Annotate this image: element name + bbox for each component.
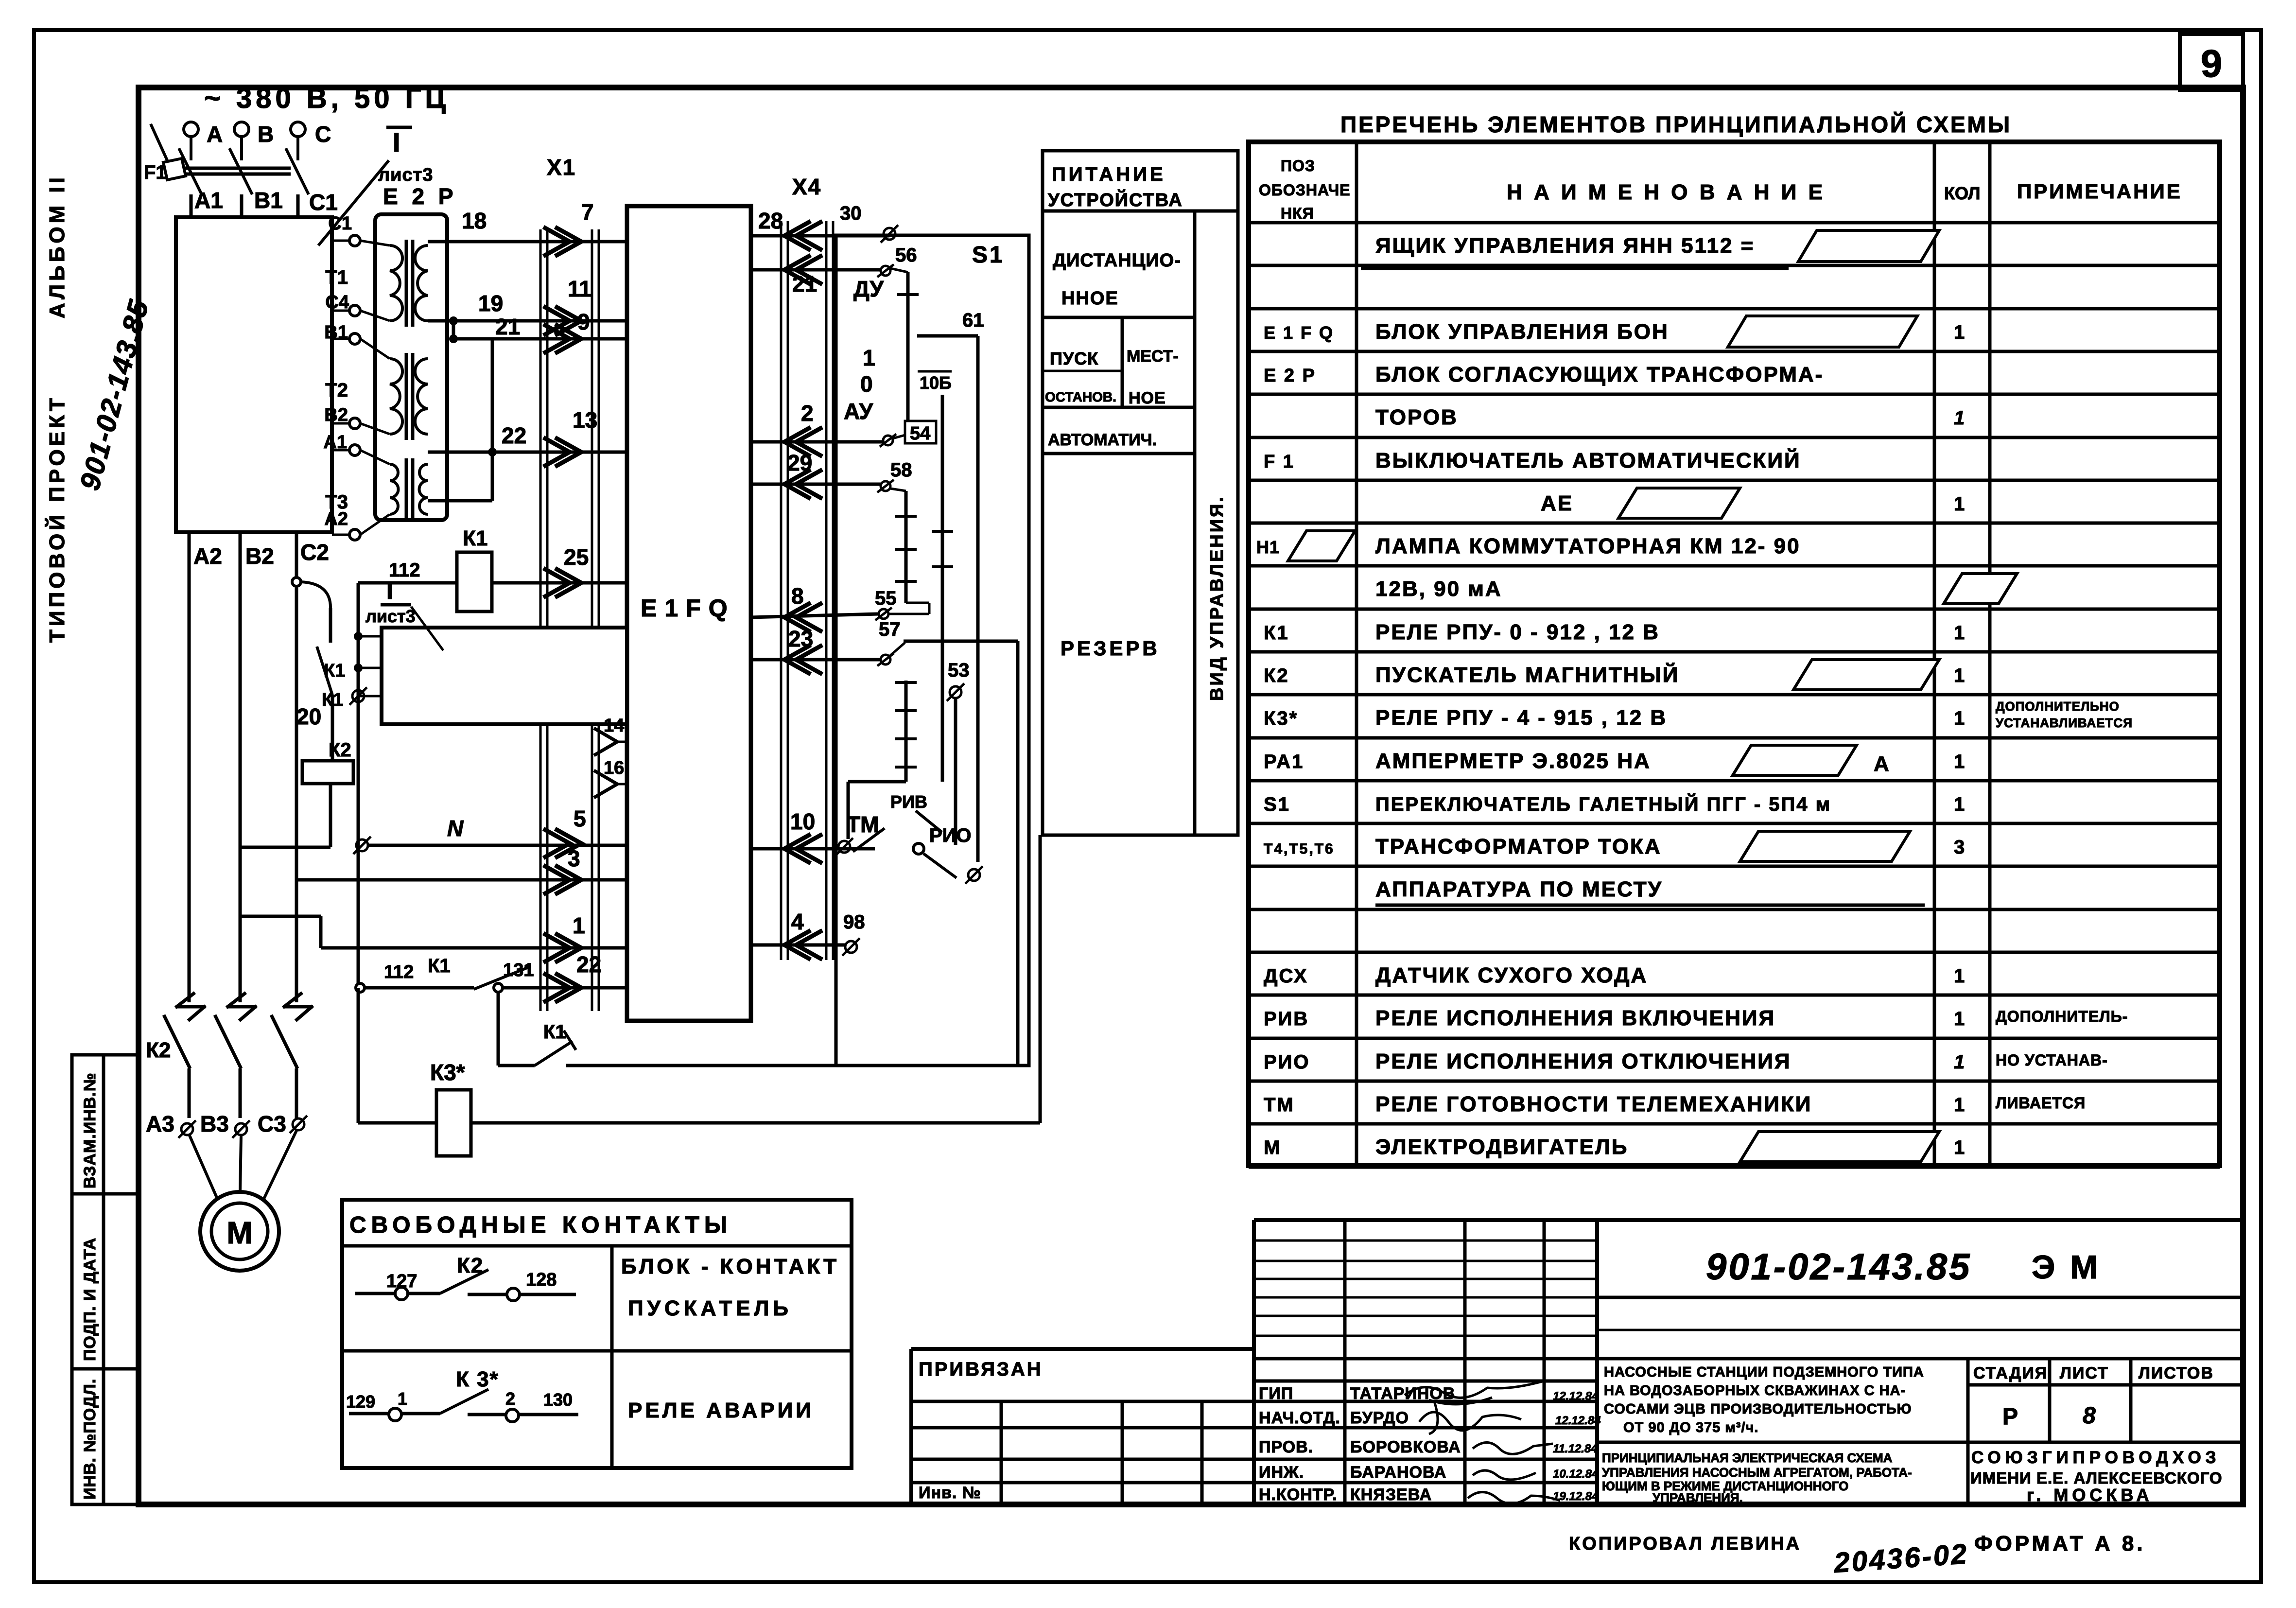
signature squiggle 5 [1468, 1492, 1560, 1504]
svg-text:1: 1 [1954, 1094, 1965, 1116]
K2 main contact pole [215, 993, 257, 1068]
element table row line 9 [1249, 608, 2220, 611]
placeholder row 15 [1740, 831, 1910, 861]
wire phase drop to box [190, 194, 193, 217]
privyazan divider [1121, 1401, 1124, 1504]
pitanie header line [1043, 210, 1238, 213]
X1 chevron 3 [543, 865, 581, 894]
transformer core line b [411, 458, 415, 520]
terminal В1 [349, 333, 360, 344]
title row line 3002 [911, 1458, 1597, 1461]
svg-text:РИВ: РИВ [1264, 1008, 1309, 1030]
connector X1 column line [591, 229, 593, 1011]
svg-text:29: 29 [787, 450, 812, 475]
wire K2 coil to phase B [240, 846, 330, 849]
svg-text:1: 1 [1954, 493, 1965, 515]
contact TM [853, 828, 885, 852]
phase wire A down [188, 532, 191, 1002]
svg-text:Т4,Т5,Т6: Т4,Т5,Т6 [1264, 841, 1335, 857]
matching transformer block E2P [375, 214, 447, 520]
svg-text:лист3: лист3 [365, 606, 416, 626]
sheet reference block (list3) [382, 628, 627, 724]
contact row1 circle right [507, 1288, 520, 1301]
F1 handle [163, 158, 186, 180]
X4 chevron 10 [784, 834, 822, 863]
svg-text:А: А [1874, 752, 1889, 776]
svg-text:ЛАМПА КОММУТАТОРНАЯ КМ 12-: ЛАМПА КОММУТАТОРНАЯ КМ 12- 90 [1375, 534, 1801, 558]
svg-text:~ 380 В, 50 ГЦ: ~ 380 В, 50 ГЦ [204, 83, 450, 114]
wire 21/56 [751, 268, 881, 272]
svg-text:12В, 90 мА: 12В, 90 мА [1375, 577, 1502, 601]
chain DU vertical [906, 272, 910, 440]
title small row line [1254, 1296, 1597, 1299]
chain 10B vertical [941, 395, 944, 782]
diagonal leader to sheet ref [318, 160, 389, 245]
svg-text:ФОРМАТ А 8.: ФОРМАТ А 8. [1974, 1532, 2146, 1556]
phase wire C down [295, 532, 298, 1002]
X4 chevron 23 [784, 645, 822, 674]
svg-text:16: 16 [604, 758, 624, 778]
placeholder row 9 qty [1944, 574, 2017, 604]
element table row line 2 [1249, 307, 2220, 311]
no-connect N end [353, 837, 371, 854]
wire 61 vertical [976, 336, 980, 862]
svg-text:АВТОМАТИЧ.: АВТОМАТИЧ. [1048, 431, 1157, 449]
junction stub b [354, 664, 363, 672]
svg-text:БАРАНОВА: БАРАНОВА [1350, 1463, 1446, 1482]
svg-text:22: 22 [502, 423, 526, 448]
riser 131 down [497, 992, 500, 1066]
wire 22 / X1:13 [428, 451, 627, 454]
element table row line 18 [1249, 994, 2220, 997]
transformer secondary winding [415, 245, 428, 321]
svg-text:A2: A2 [193, 543, 222, 569]
svg-text:РЕЛЕ ИСПОЛНЕНИЯ ОТКЛЮЧЕНИЯ: РЕЛЕ ИСПОЛНЕНИЯ ОТКЛЮЧЕНИЯ [1375, 1049, 1791, 1073]
wire 28/30 [751, 234, 889, 238]
svg-text:В1: В1 [324, 322, 348, 343]
svg-text:К 3*: К 3* [456, 1367, 499, 1391]
svg-text:ПУСКАТЕЛЬ: ПУСКАТЕЛЬ [628, 1296, 792, 1320]
svg-text:НОЕ: НОЕ [1129, 389, 1166, 407]
svg-text:ОБОЗНАЧЕ: ОБОЗНАЧЕ [1259, 181, 1350, 199]
X1 chevron 13 [543, 437, 581, 467]
F1 pole stroke phase [179, 148, 202, 194]
stub wire b [358, 667, 382, 669]
node 131 [494, 983, 503, 992]
svg-text:ННОЕ: ННОЕ [1061, 288, 1119, 309]
motor M [200, 1192, 279, 1271]
F1 busbar line top [183, 167, 291, 170]
svg-text:А1: А1 [323, 432, 347, 453]
underline row 16 [1375, 904, 1925, 907]
svg-text:АМПЕРМЕТР Э.8025 НА: АМПЕРМЕТР Э.8025 НА [1375, 749, 1651, 773]
svg-text:А3: А3 [146, 1111, 174, 1136]
svg-text:НКЯ: НКЯ [1281, 205, 1314, 222]
svg-text:АЛЬБОМ II: АЛЬБОМ II [45, 174, 69, 318]
svg-text:1: 1 [1954, 965, 1965, 987]
chain 57 vertical [904, 681, 908, 782]
chain 57 drop [847, 782, 850, 839]
svg-text:57: 57 [879, 619, 901, 640]
wire T3 secondary to common [428, 499, 492, 503]
title row line 3050 [911, 1481, 1597, 1485]
svg-text:5: 5 [574, 806, 586, 831]
svg-text:1: 1 [1954, 665, 1965, 686]
free contacts divider [610, 1246, 614, 1468]
X4 chevron 8 [784, 603, 822, 632]
element table row line 13 [1249, 779, 2220, 783]
svg-text:РЕЛЕ ИСПОЛНЕНИЯ ВКЛЮЧЕНИЯ: РЕЛЕ ИСПОЛНЕНИЯ ВКЛЮЧЕНИЯ [1375, 1006, 1775, 1030]
svg-text:13: 13 [573, 407, 597, 433]
svg-text:В1: В1 [254, 188, 283, 213]
overline 10B [918, 370, 952, 373]
svg-text:S1: S1 [972, 242, 1005, 268]
contact 58 [877, 480, 894, 492]
svg-text:129: 129 [346, 1392, 375, 1412]
wire 131 to X1:22 [503, 986, 627, 990]
X1 chevron 22 [543, 973, 581, 1002]
contact row1 wire left [355, 1292, 440, 1295]
svg-text:130: 130 [543, 1390, 573, 1410]
org cell top line [1968, 1441, 2243, 1444]
stub wire c [358, 695, 382, 698]
contact row2 circle left [389, 1408, 401, 1421]
wire 23/57 [751, 658, 881, 662]
svg-text:19.12.84: 19.12.84 [1553, 1490, 1598, 1503]
tick DU [897, 293, 919, 296]
svg-text:ТРАНСФОРМАТОР ТОКА: ТРАНСФОРМАТОР ТОКА [1375, 835, 1662, 858]
svg-text:112: 112 [384, 962, 414, 982]
contact RIV [916, 811, 942, 832]
free contacts table [342, 1200, 852, 1468]
element table row line 6 [1249, 479, 2220, 482]
F1 pole stroke phase [286, 148, 309, 194]
svg-text:61: 61 [962, 310, 984, 331]
wire below K2 coil [329, 784, 332, 847]
contact row2 wire left [349, 1412, 440, 1416]
title block vertical 3286 [1595, 1220, 1599, 1504]
svg-text:9: 9 [2201, 42, 2223, 85]
tick 57 b [895, 709, 917, 712]
svg-text:4: 4 [791, 909, 804, 934]
svg-text:Р: Р [2002, 1404, 2018, 1430]
svg-text:ПРИМЕЧАНИЕ: ПРИМЕЧАНИЕ [2017, 180, 2182, 203]
privyazan block left [909, 1349, 913, 1504]
privyazan divider [1000, 1401, 1003, 1504]
chain 57 elbow [848, 780, 906, 784]
svg-text:ИНЖ.: ИНЖ. [1259, 1463, 1304, 1482]
svg-text:11: 11 [568, 276, 591, 301]
contact K1 on wire 131 [474, 966, 531, 989]
line under mestnoe [1043, 406, 1195, 409]
svg-text:127: 127 [386, 1271, 417, 1292]
wire 10/TM [751, 847, 875, 851]
node on C2 [292, 577, 301, 586]
contact row1 circle left [395, 1287, 408, 1300]
element table row line 21 [1249, 1122, 2220, 1126]
svg-text:С4: С4 [325, 292, 349, 313]
wire K3 coil to right riser [471, 1121, 1040, 1125]
svg-text:98: 98 [843, 911, 865, 933]
sidebar stamp table [72, 1055, 139, 1504]
wire C4 to T1 primary bottom [360, 311, 390, 321]
svg-text:К1: К1 [1264, 622, 1289, 644]
title block signature divider [1343, 1220, 1347, 1504]
svg-text:К1: К1 [428, 955, 451, 977]
svg-text:58: 58 [890, 459, 912, 481]
element table row line 10 [1249, 650, 2220, 654]
phase wire to motor terminal [295, 1068, 298, 1118]
transformer core line a [405, 240, 408, 327]
motor lead b [240, 1136, 241, 1192]
phase wire B down [239, 532, 242, 1002]
svg-text:ПЕРЕКЛЮЧАТЕЛЬ ГАЛЕТНЫЙ ПГГ -: ПЕРЕКЛЮЧАТЕЛЬ ГАЛЕТНЫЙ ПГГ - 5П4 м [1375, 793, 1831, 815]
svg-text:11.12.84: 11.12.84 [1553, 1442, 1598, 1455]
svg-text:I: I [393, 127, 400, 157]
motor terminal В3 [232, 1120, 250, 1138]
svg-text:0: 0 [860, 371, 873, 397]
placeholder row 3 [1728, 316, 1917, 347]
element table row line 16 [1249, 908, 2220, 911]
svg-text:1: 1 [1954, 708, 1965, 729]
X1 half chevron 14 [594, 728, 617, 755]
stub to terminal С1 [332, 240, 349, 242]
svg-text:ВЗАМ.ИНВ.№: ВЗАМ.ИНВ.№ [81, 1072, 99, 1189]
chain 58 vertical [904, 491, 908, 603]
svg-text:ДОПОЛНИТЕЛЬ-: ДОПОЛНИТЕЛЬ- [1996, 1008, 2128, 1025]
sidebar row line 2 [72, 1367, 139, 1371]
signature squiggle 4 [1473, 1470, 1536, 1480]
svg-text:18: 18 [462, 208, 487, 233]
svg-text:12.12.84: 12.12.84 [1553, 1390, 1598, 1403]
svg-text:РЕЛЕ ГОТОВНОСТИ ТЕЛЕМЕХАНИК: РЕЛЕ ГОТОВНОСТИ ТЕЛЕМЕХАНИКИ [1375, 1092, 1812, 1116]
stub to terminal А2 [332, 534, 349, 536]
contact 54 [880, 434, 896, 447]
contact RIO slash [923, 854, 957, 878]
tick 58 c [895, 580, 917, 583]
svg-text:23: 23 [788, 626, 813, 651]
relay coil K1 [457, 552, 492, 612]
svg-text:РА1: РА1 [1264, 751, 1304, 772]
wire 4/98 [751, 944, 846, 947]
link 56 chain [890, 268, 908, 272]
wire A1 to T3 primary [360, 450, 390, 464]
wire B1 to T2 primary [360, 339, 390, 359]
contact 55 [875, 608, 892, 620]
wire k1 nc left [498, 1064, 535, 1067]
tick 58 b [895, 548, 917, 551]
relay coil K3* [436, 1090, 471, 1156]
svg-text:21: 21 [792, 271, 817, 297]
wire 112 / X1:25 [358, 581, 627, 585]
tick 57 c [895, 737, 917, 740]
signature squiggle 3 [1473, 1443, 1553, 1454]
svg-text:1: 1 [1954, 1051, 1965, 1073]
svg-text:БУРДО: БУРДО [1350, 1409, 1409, 1427]
terminal С4 [349, 305, 360, 316]
svg-text:ПИТАНИЕ: ПИТАНИЕ [1052, 164, 1166, 185]
svg-text:К1: К1 [543, 1021, 566, 1043]
transformer secondary winding [415, 359, 428, 434]
box label 54 [905, 421, 936, 443]
line under distancionnoe [1043, 316, 1195, 319]
phase wire to motor terminal [188, 1068, 191, 1118]
contact row2 wire right [468, 1413, 578, 1416]
stage divider 2 [2129, 1359, 2133, 1442]
placeholder row 11 [1793, 660, 1939, 690]
svg-text:К2: К2 [146, 1038, 171, 1062]
svg-text:1: 1 [1954, 751, 1965, 772]
svg-text:К1: К1 [324, 661, 345, 681]
svg-text:лист3: лист3 [378, 165, 433, 185]
svg-text:УСТРОЙСТВА: УСТРОЙСТВА [1048, 189, 1183, 210]
svg-text:8: 8 [2083, 1403, 2096, 1429]
wire jog 19-21 [452, 321, 455, 339]
input terminal В [234, 122, 249, 160]
svg-text:К2: К2 [329, 739, 351, 761]
svg-text:г. МОСКВА: г. МОСКВА [2027, 1485, 2153, 1505]
element table header line [1249, 221, 2220, 225]
wire 112 vertical branch [357, 583, 360, 696]
no-connect RIO [965, 866, 983, 884]
svg-text:ИНВ. №ПОДЛ.: ИНВ. №ПОДЛ. [81, 1379, 99, 1500]
right outer riser [1039, 835, 1042, 1123]
input terminal A [184, 122, 198, 160]
breaker F1 enclosure box [176, 217, 332, 532]
wire to K3 coil [358, 1121, 436, 1125]
thin line 2736 [1597, 1329, 2243, 1331]
long wire to S1 bottom [566, 1064, 1018, 1067]
svg-text:55: 55 [875, 588, 897, 609]
title row line 2937 [911, 1426, 1597, 1430]
svg-text:N: N [447, 816, 464, 841]
svg-text:К1: К1 [463, 526, 487, 550]
sheet ref overbar [386, 126, 412, 129]
svg-text:Н1: Н1 [1256, 537, 1280, 557]
svg-text:В: В [258, 122, 274, 147]
element table column line [1355, 142, 1358, 1166]
element table row line 7 [1249, 522, 2220, 525]
transformer secondary winding [419, 464, 428, 514]
svg-text:56: 56 [895, 245, 917, 266]
wire secondary common vertical [491, 339, 494, 501]
element table row line 12 [1249, 736, 2220, 740]
svg-text:АЕ: АЕ [1541, 491, 1573, 515]
svg-text:ПУСК: ПУСК [1050, 349, 1098, 368]
svg-text:E1FQ: E1FQ [641, 594, 735, 622]
terminal А2 [349, 529, 360, 540]
svg-text:В2: В2 [245, 543, 274, 569]
motor terminal С3 [290, 1116, 307, 1133]
link 55 [888, 613, 929, 615]
svg-text:СТАДИЯ: СТАДИЯ [1973, 1364, 2048, 1382]
stub to terminal С4 [332, 310, 349, 312]
svg-text:7: 7 [581, 199, 594, 225]
stage col line [1966, 1359, 1970, 1504]
link 58 [890, 489, 906, 491]
stage divider 1 [2048, 1359, 2052, 1442]
stage header underline [1968, 1383, 2243, 1387]
svg-text:ОСТАНОВ.: ОСТАНОВ. [1045, 389, 1116, 404]
svg-text:1: 1 [398, 1389, 407, 1409]
contact K1 (NO) [317, 647, 332, 695]
svg-text:I: I [386, 577, 393, 604]
svg-text:25: 25 [564, 544, 589, 570]
svg-text:РИО: РИО [929, 825, 972, 846]
svg-text:ПРИВЯЗАН: ПРИВЯЗАН [919, 1359, 1043, 1380]
svg-text:ТОРОВ: ТОРОВ [1375, 405, 1458, 429]
F1 linkage stroke [151, 124, 168, 161]
svg-text:УПРАВЛЕНИЯ.: УПРАВЛЕНИЯ. [1652, 1490, 1743, 1505]
junction stub a [354, 632, 363, 641]
svg-text:БЛОК - КОНТАКТ: БЛОК - КОНТАКТ [621, 1255, 839, 1278]
transformer core line a [405, 353, 408, 440]
element table row line 19 [1249, 1037, 2220, 1040]
contact row2 circle right [506, 1409, 519, 1422]
svg-text:ТАТАРИНОВ: ТАТАРИНОВ [1350, 1384, 1455, 1403]
svg-text:ПРИНЦИПИАЛЬНАЯ ЭЛЕКТРИЧЕСКАЯ: ПРИНЦИПИАЛЬНАЯ ЭЛЕКТРИЧЕСКАЯ СХЕМА [1602, 1451, 1893, 1465]
connector X4 column line [832, 221, 835, 960]
svg-text:С3: С3 [258, 1111, 286, 1136]
svg-text:ПРОВ.: ПРОВ. [1259, 1438, 1313, 1456]
line under project name [1597, 1441, 2243, 1444]
svg-text:1: 1 [1954, 794, 1965, 815]
divider pusk/mest [1121, 317, 1124, 407]
svg-text:9: 9 [577, 309, 590, 334]
svg-text:1: 1 [1954, 622, 1965, 644]
svg-text:БЛОК УПРАВЛЕНИЯ БОН: БЛОК УПРАВЛЕНИЯ БОН [1375, 320, 1669, 344]
X4 chevron 21 [784, 255, 822, 284]
terminal В2 [349, 418, 360, 429]
riser 57 wire [1016, 641, 1020, 1066]
no-connect 30 [881, 225, 898, 243]
selector switch S1 enclosure [836, 235, 1029, 1066]
svg-text:ТИПОВОЙ ПРОЕКТ: ТИПОВОЙ ПРОЕКТ [44, 395, 69, 643]
F1 pole stroke phase [229, 148, 252, 194]
svg-text:С: С [315, 122, 331, 147]
svg-text:БЛОК СОГЛАСУЮЩИХ ТРАНСФОРМА: БЛОК СОГЛАСУЮЩИХ ТРАНСФОРМА- [1375, 363, 1824, 386]
svg-text:1: 1 [863, 345, 875, 370]
svg-text:ДАТЧИК СУХОГО ХОДА: ДАТЧИК СУХОГО ХОДА [1375, 963, 1648, 987]
svg-text:С1: С1 [328, 213, 352, 234]
svg-text:ЯЩИК УПРАВЛЕНИЯ ЯНН 5112 =: ЯЩИК УПРАВЛЕНИЯ ЯНН 5112 = [1375, 234, 1755, 258]
X4 chevron 28 [784, 221, 822, 250]
title block top line [1254, 1218, 2243, 1222]
input terminal С [291, 122, 305, 160]
svg-text:НАЧ.ОТД.: НАЧ.ОТД. [1259, 1409, 1340, 1427]
svg-text:НАСОСНЫЕ СТАНЦИИ ПОДЗЕМНОГО: НАСОСНЫЕ СТАНЦИИ ПОДЗЕМНОГО ТИПА [1604, 1364, 1924, 1380]
svg-text:3: 3 [568, 846, 580, 871]
junction wire 22 [488, 448, 497, 456]
svg-text:ПОЗ: ПОЗ [1281, 157, 1315, 175]
wire B2 to T2 primary bottom [360, 423, 390, 434]
title row line 2841 [1254, 1380, 1597, 1383]
wire 1 part b [321, 946, 627, 950]
svg-text:БОРОВКОВА: БОРОВКОВА [1350, 1438, 1461, 1456]
svg-text:ПУСКАТЕЛЬ МАГНИТНЫЙ: ПУСКАТЕЛЬ МАГНИТНЫЙ [1375, 662, 1679, 687]
svg-text:Инв. №: Инв. № [919, 1484, 981, 1502]
svg-text:ВИД УПРАВЛЕНИЯ.: ВИД УПРАВЛЕНИЯ. [1207, 495, 1227, 701]
contact circle RIO [913, 843, 924, 854]
element table row line 8 [1249, 564, 2220, 568]
contact row1 wire right [468, 1293, 576, 1296]
privyazan divider [1200, 1401, 1204, 1504]
svg-text:F1: F1 [144, 162, 167, 183]
X1 chevron 25 [543, 568, 581, 597]
svg-text:19: 19 [478, 291, 503, 316]
sidebar stamp divider [102, 1055, 105, 1504]
title block line 2795 [1254, 1357, 2243, 1361]
